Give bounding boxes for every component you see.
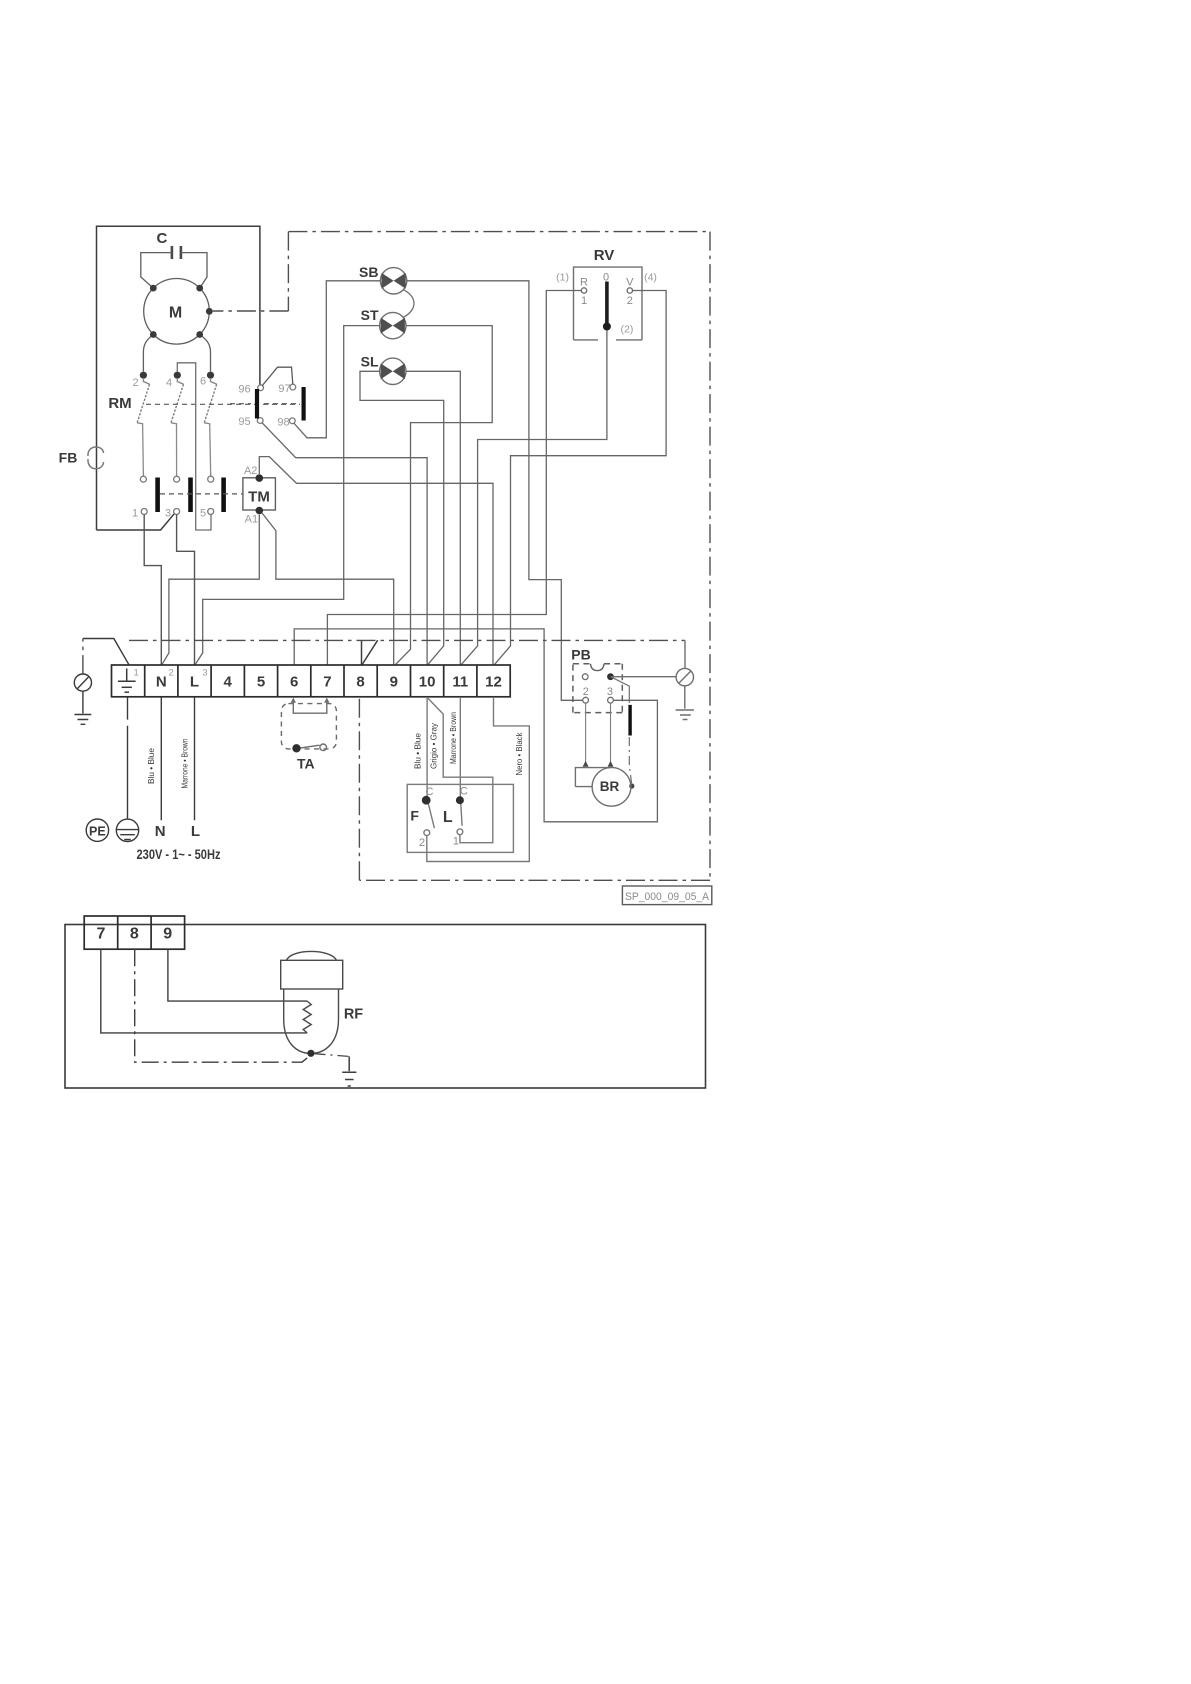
- svg-text:PB: PB: [571, 647, 590, 663]
- svg-text:L: L: [443, 809, 453, 826]
- svg-text:8: 8: [356, 674, 364, 691]
- svg-text:12: 12: [485, 674, 502, 691]
- svg-text:2: 2: [419, 837, 425, 849]
- svg-text:98: 98: [277, 417, 289, 429]
- svg-text:SB: SB: [359, 264, 378, 280]
- svg-text:RM: RM: [108, 395, 131, 412]
- svg-text:97: 97: [278, 383, 290, 395]
- svg-text:230V - 1~ - 50Hz: 230V - 1~ - 50Hz: [137, 847, 221, 862]
- svg-text:6: 6: [200, 376, 206, 388]
- svg-text:(1): (1): [556, 272, 569, 284]
- svg-text:(4): (4): [644, 272, 657, 284]
- svg-text:9: 9: [390, 674, 398, 691]
- svg-text:Grigio • Gray: Grigio • Gray: [429, 722, 439, 769]
- svg-text:8: 8: [130, 926, 139, 943]
- svg-text:1: 1: [453, 836, 459, 848]
- svg-text:2: 2: [168, 668, 173, 679]
- svg-text:10: 10: [419, 674, 436, 691]
- svg-text:Nero • Black: Nero • Black: [514, 732, 524, 776]
- svg-text:C: C: [426, 786, 434, 798]
- svg-text:BR: BR: [600, 779, 620, 794]
- svg-text:Marrone • Brown: Marrone • Brown: [180, 738, 190, 788]
- svg-text:TA: TA: [297, 756, 315, 772]
- svg-text:3: 3: [165, 508, 171, 520]
- svg-text:5: 5: [257, 674, 265, 691]
- svg-text:L: L: [190, 674, 199, 691]
- svg-text:1: 1: [132, 508, 138, 520]
- svg-text:1: 1: [134, 668, 139, 679]
- svg-text:4: 4: [224, 674, 233, 691]
- svg-text:R: R: [580, 277, 588, 289]
- svg-text:FB: FB: [59, 450, 78, 466]
- svg-text:2: 2: [583, 686, 589, 698]
- svg-text:TM: TM: [248, 489, 270, 506]
- svg-text:N: N: [155, 823, 166, 840]
- svg-text:0: 0: [603, 272, 609, 284]
- svg-text:2: 2: [132, 377, 138, 389]
- svg-text:7: 7: [96, 926, 105, 943]
- svg-text:F: F: [410, 808, 419, 824]
- svg-text:A2: A2: [244, 465, 257, 477]
- svg-text:Marrone • Brown: Marrone • Brown: [448, 712, 458, 764]
- svg-text:SL: SL: [361, 354, 379, 370]
- svg-text:5: 5: [200, 508, 206, 520]
- svg-text:(2): (2): [621, 324, 634, 336]
- svg-text:V: V: [626, 277, 634, 289]
- svg-text:C: C: [156, 230, 167, 247]
- svg-text:11: 11: [452, 674, 468, 691]
- svg-text:RV: RV: [594, 247, 615, 264]
- svg-text:ST: ST: [361, 307, 379, 323]
- svg-text:9: 9: [163, 926, 172, 943]
- svg-text:SP_000_09_05_A: SP_000_09_05_A: [625, 891, 710, 903]
- svg-text:7: 7: [323, 674, 331, 691]
- svg-text:PE: PE: [89, 825, 106, 839]
- svg-text:L: L: [191, 823, 200, 840]
- svg-text:2: 2: [627, 295, 633, 307]
- svg-text:M: M: [169, 305, 182, 322]
- svg-text:C: C: [460, 786, 468, 798]
- svg-text:N: N: [156, 674, 167, 691]
- svg-text:A1: A1: [245, 514, 258, 526]
- svg-text:Blu • Blue: Blu • Blue: [146, 748, 156, 784]
- svg-text:Blu • Blue: Blu • Blue: [413, 733, 423, 769]
- svg-text:RF: RF: [344, 1007, 363, 1023]
- svg-text:6: 6: [290, 674, 298, 691]
- svg-text:95: 95: [238, 416, 250, 428]
- svg-text:3: 3: [202, 668, 207, 679]
- svg-text:1: 1: [581, 295, 587, 307]
- svg-text:3: 3: [607, 686, 613, 698]
- svg-text:96: 96: [238, 384, 250, 396]
- svg-text:4: 4: [166, 377, 172, 389]
